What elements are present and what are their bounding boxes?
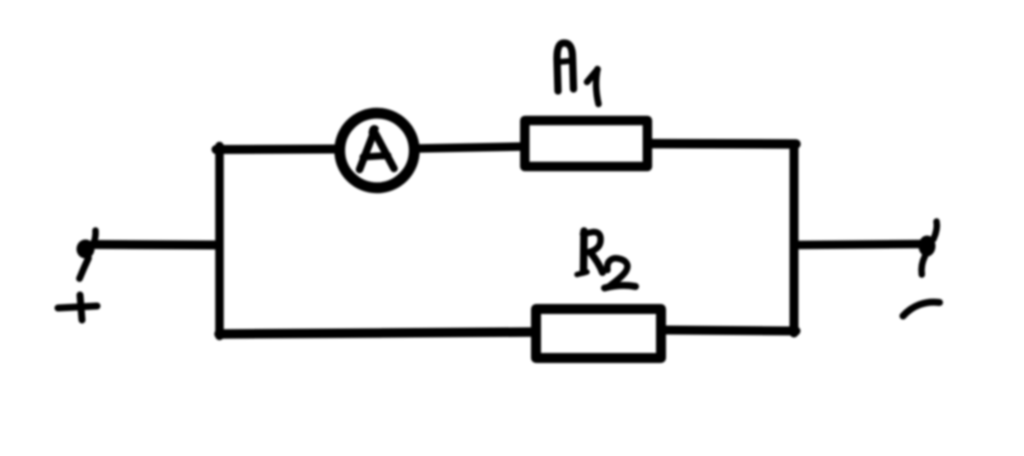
node right terminal upper tick xyxy=(934,222,937,240)
node right terminal lower tail xyxy=(922,256,925,275)
wire R2 to right rail xyxy=(663,330,796,331)
wire R1 to right rail xyxy=(651,139,796,149)
op-amp ammeter U1 circle xyxy=(340,113,415,188)
label R1 letter R xyxy=(557,43,574,91)
ammeter letter A xyxy=(360,128,395,170)
label R2 letter R xyxy=(577,231,603,275)
- label (negative terminal) xyxy=(903,302,940,316)
resistor R1 body xyxy=(525,121,648,167)
wire left terminal to left rail xyxy=(93,240,219,250)
node left terminal dot xyxy=(77,240,95,259)
label R1 subscript 1 xyxy=(587,69,599,104)
resistor R2 body xyxy=(536,309,661,358)
wire right vertical rail xyxy=(790,144,799,333)
wire right rail to right terminal xyxy=(794,244,922,245)
+ label (positive terminal) xyxy=(58,306,97,308)
node left terminal lower tail xyxy=(80,258,89,279)
wire top branch left segment xyxy=(216,145,340,155)
node right terminal dot xyxy=(919,236,936,257)
node left terminal upper tick xyxy=(94,231,96,244)
wire left vertical rail xyxy=(215,146,224,336)
wire bottom branch left segment xyxy=(219,332,535,334)
wire ammeter to R1 xyxy=(417,147,523,149)
label R2 subscript 2 xyxy=(605,258,636,288)
